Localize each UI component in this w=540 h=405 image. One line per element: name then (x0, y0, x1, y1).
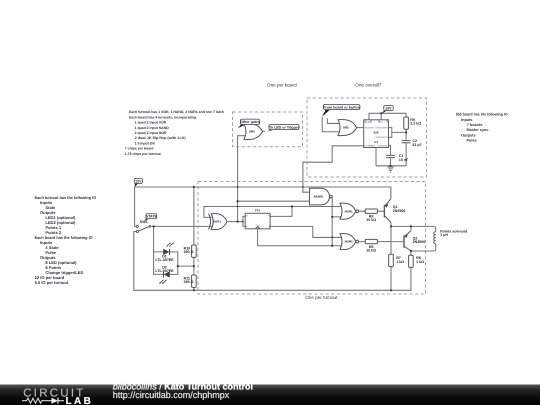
logo resistor zigzag (22, 398, 52, 403)
node Q2 collector solenoid (410, 250, 412, 252)
inductor L1 points solenoid (434, 232, 436, 244)
wire OR2 lower input stub to flag (322, 117, 340, 132)
wire 12V drop to switch upper throw (135, 187, 136, 226)
LED D1 (163, 242, 173, 255)
node NAND vert to NOR1 input (331, 216, 333, 218)
capacitor C2 (402, 141, 411, 143)
wire R10/R11 chain (193, 187, 195, 290)
svg-text:10 kΩ: 10 kΩ (366, 249, 376, 253)
svg-text:10 nF: 10 nF (399, 158, 409, 162)
svg-text:U1: U1 (374, 140, 378, 144)
transistor Q2 2N3906 (404, 231, 411, 251)
gate NOR2 (340, 234, 359, 250)
node Q2 emitter rail (410, 225, 412, 227)
wire R9 to C2 node (405, 129, 407, 141)
svg-text:Each turnout has 1 XOR, 1 NAND: Each turnout has 1 XOR, 1 NAND, 2 NORs a… (129, 110, 224, 114)
svg-text:SW1: SW1 (140, 220, 148, 224)
wire Q2 emitter up (410, 226, 412, 231)
wire lower throw / bottom rail (134, 232, 411, 291)
wire LED loop (154, 252, 178, 275)
wire 555 RESET/VCC to 12V and R9 (369, 113, 406, 120)
wire 555 discharge-threshold tie (389, 128, 407, 138)
note block chips (125, 110, 224, 156)
flag STATE (144, 214, 158, 222)
wire XOR1 top input feedback rail (204, 207, 342, 218)
svg-text:To LED or Trigger: To LED or Trigger (269, 125, 300, 129)
wire Q2 collector to R8 (410, 251, 412, 255)
wire NOR2 output to R6 to Q2 base (359, 241, 404, 243)
wire OR2 output to 555 TRIGGER (357, 127, 364, 129)
svg-text:7 chips per board: 7 chips per board (125, 147, 154, 151)
wire FF1 Q to feedback rail (270, 207, 292, 217)
svg-text:2N3906: 2N3906 (413, 240, 426, 244)
flag 12V (left) (134, 178, 142, 187)
label U1 555 pins (365, 121, 389, 147)
resistor R10 (192, 245, 197, 257)
wire NOR1 output to R8 to Q1 base (359, 210, 385, 212)
svg-text:DISCHARGE: DISCHARGE (376, 127, 389, 130)
wire 555 CONTROL to C1 (389, 145, 391, 155)
svg-text:http://circuitlab.com/chphmpx: http://circuitlab.com/chphmpx (113, 390, 230, 400)
wire 555 GND pin down (375, 148, 377, 166)
resistor R9 (2.2k) (404, 117, 409, 129)
svg-text:LAB: LAB (66, 396, 94, 405)
svg-text:1 kΩ: 1 kΩ (396, 260, 404, 264)
node R9 C2 discharge (405, 131, 407, 133)
svg-text:NAND1: NAND1 (314, 195, 324, 199)
switch SW1 (SPDT) (136, 225, 151, 232)
node A divider mid (193, 265, 195, 267)
svg-text:GND: GND (371, 144, 376, 147)
svg-text:22 µF: 22 µF (412, 143, 422, 147)
svg-text:XOR1: XOR1 (213, 220, 221, 224)
wire OR5 input net down to XOR output node (238, 136, 246, 222)
wire Q1 collector down through R7 (390, 223, 392, 291)
node pulse crossing rail1 (302, 186, 304, 188)
logo diode (52, 398, 59, 404)
wire LED mid to divider node A (178, 265, 194, 267)
svg-text:CONTROL: CONTROL (378, 144, 389, 147)
svg-text:1.75 chips per turnout: 1.75 chips per turnout (125, 152, 162, 156)
wire NAND1 output to NOR1 lower input (332, 216, 342, 218)
wire switch common to XOR1 input (151, 225, 214, 227)
wire FF1 J-K tie bracket (243, 216, 245, 226)
svg-text:2N3906: 2N3906 (393, 209, 406, 213)
wire solenoid bottom to Q2 collector (411, 244, 436, 251)
svg-text:1 kΩ: 1 kΩ (416, 260, 424, 264)
svg-text:1 µH: 1 µH (440, 233, 448, 237)
svg-text:TRIGGER: TRIGGER (365, 127, 375, 130)
svg-text:Each board has 4 turnouts, inc: Each board has 4 turnouts, incorporating… (129, 115, 197, 119)
node XOR output junction (236, 221, 238, 223)
wire OR5 output stub (263, 131, 265, 133)
svg-text:NOR2: NOR2 (345, 240, 353, 244)
svg-text:Master sync: Master sync (467, 128, 489, 132)
node bottom rail R7 (390, 289, 392, 291)
node switch common / LED branch (153, 225, 155, 227)
note block 555 board IO (456, 113, 508, 143)
transistor Q1 2N3906 (384, 199, 391, 223)
svg-text:1 quad 2 input NAND: 1 quad 2 input NAND (135, 126, 170, 130)
node XOR net crossing feedback rail (237, 206, 239, 208)
node LED mid left (177, 265, 179, 267)
svg-text:LTL-307EE: LTL-307EE (155, 269, 174, 273)
svg-text:10 kΩ: 10 kΩ (366, 218, 376, 222)
svg-text:1 quad 2 input XOR: 1 quad 2 input XOR (135, 121, 167, 125)
node R11 bottom rail (193, 289, 195, 291)
flag 12V (555) (381, 106, 393, 114)
node B Q1 collector (390, 225, 392, 227)
wire 12V top rail to Q1 emitter (135, 187, 391, 199)
wire node B rail to solenoid top (391, 226, 436, 231)
node FF1 bracket tie (242, 221, 244, 223)
svg-text:NOR1: NOR1 (345, 209, 353, 213)
svg-text:? boards: ? boards (467, 123, 483, 127)
node NAND vert crossing Q' wire (331, 237, 333, 239)
node Q feedback junction (291, 205, 293, 207)
svg-text:2 quad 2 input NOR: 2 quad 2 input NOR (135, 131, 167, 135)
svg-text:390 Ω: 390 Ω (184, 250, 194, 254)
flip-flop FF1 (245, 213, 270, 229)
svg-text:FF1: FF1 (255, 209, 261, 213)
svg-text:STATE: STATE (146, 215, 158, 219)
svg-text:555: 555 (374, 131, 379, 135)
ground symbol (387, 167, 393, 172)
wire C2 bottom to ground rail (376, 143, 406, 166)
svg-text:VCC: VCC (378, 121, 383, 124)
svg-text:RESET: RESET (365, 121, 373, 124)
resistor R8b (1k) (409, 255, 414, 267)
wire XOR1 output to FF1 (227, 221, 243, 223)
note block IO per turnout (35, 195, 97, 285)
dashed box: One per board (233, 112, 303, 147)
svg-text:THRESHOLD: THRESHOLD (375, 136, 388, 139)
flag Other gates (238, 119, 260, 128)
svg-text:5.5 IO per turnout: 5.5 IO per turnout (35, 280, 69, 285)
wire FF1 Q' to NOR2 upper input (270, 226, 342, 237)
svg-text:555 board has the following IO: 555 board has the following IO (456, 113, 508, 117)
LED D2 (159, 271, 169, 284)
gate XOR1 (209, 214, 227, 230)
svg-text:2 dual JK flip flop (with J=K): 2 dual JK flip flop (with J=K) (135, 136, 186, 140)
wire NAND1 output vertical (331, 197, 333, 246)
svg-text:Inputs: Inputs (461, 118, 472, 122)
svg-text:OR5: OR5 (249, 130, 255, 134)
capacitor C1 (386, 155, 395, 157)
svg-text:LTL-307EE: LTL-307EE (155, 258, 174, 262)
dashed box: One overall? (307, 98, 427, 177)
resistor R8 (10k, NOR1) (365, 209, 377, 213)
svg-text:CLK: CLK (256, 224, 261, 227)
svg-text:OR2: OR2 (343, 126, 349, 130)
svg-text:Outputs: Outputs (461, 133, 476, 137)
wire common down to LED pair (153, 226, 155, 252)
wire FF1 CLK to NOR2 lower input rail (258, 229, 343, 246)
svg-text:2.2 kΩ: 2.2 kΩ (410, 122, 421, 126)
svg-text:From board or button: From board or button (323, 105, 360, 109)
gate OR2 (338, 120, 357, 136)
svg-text:Pulse: Pulse (467, 139, 477, 143)
svg-text:12V: 12V (135, 179, 142, 183)
IC U1 555 timer (364, 120, 389, 148)
dashed box: One per turnout (198, 182, 426, 295)
node ground rail C1 (389, 165, 391, 167)
resistor R11 (192, 275, 197, 287)
footer bar (0, 385, 540, 405)
svg-text:One per board: One per board (267, 83, 297, 88)
wire C1 bottom to ground rail (390, 158, 392, 166)
svg-text:12V: 12V (385, 107, 392, 111)
svg-text:One per turnout: One per turnout (305, 295, 338, 300)
resistor R7 (1k) (389, 254, 394, 266)
node 555 VCC 12V (380, 112, 382, 114)
svg-text:1 8 input OR: 1 8 input OR (135, 141, 156, 145)
gate OR5 (244, 123, 263, 139)
node XOR out to NAND rail (236, 200, 238, 202)
svg-text:Other gates: Other gates (240, 120, 260, 124)
wire XOR output to NAND1 lower input (238, 200, 310, 202)
resistor R6 (10k, NOR2) (365, 239, 377, 243)
flag To LED or Trigger (265, 124, 300, 132)
svg-text:390 Ω: 390 Ω (184, 280, 194, 284)
node R10 top junction (193, 186, 195, 188)
gate NOR1 (340, 203, 359, 219)
gate NAND1 (310, 188, 333, 205)
node XOR net crossing rail1 (237, 186, 239, 188)
wire OR2 upper input stub (327, 118, 340, 123)
node NAND vert to CLK rail (331, 245, 333, 247)
flag From board or button (322, 104, 360, 117)
wire 555 output pulse to NAND1 upper input (303, 146, 364, 192)
FOOTER (0, 382, 540, 405)
SCHEMATIC (198, 98, 427, 294)
svg-text:One overall?: One overall? (355, 83, 381, 88)
